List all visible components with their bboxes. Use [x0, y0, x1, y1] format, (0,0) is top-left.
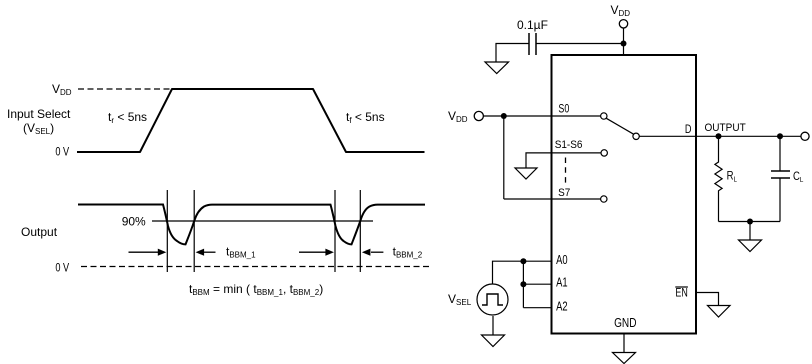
- svg-text:0 V: 0 V: [55, 146, 69, 158]
- capacitor C1 0.1uF: [517, 18, 548, 55]
- svg-text:S7: S7: [558, 187, 570, 199]
- wire VSEL to A0: [493, 261, 552, 284]
- wire A0 junction down to A2: [522, 261, 524, 308]
- svg-text:tr < 5ns: tr < 5ns: [108, 110, 147, 125]
- wire VSEL to ground: [492, 316, 494, 335]
- svg-text:EN: EN: [675, 286, 687, 300]
- pin S7 contact: [601, 196, 607, 202]
- svg-text:S0: S0: [558, 103, 569, 116]
- ground (load): [739, 240, 762, 252]
- arrow tBBM_1 right: [196, 249, 216, 256]
- wire S7: [504, 198, 601, 200]
- arrow tBBM_2 left: [299, 249, 334, 256]
- wire junction to capacitor: [536, 43, 624, 45]
- wire vertical marker line 4: [359, 190, 361, 272]
- wire to load ground: [749, 222, 751, 241]
- node junction RL top: [716, 133, 722, 139]
- source VSEL pulse generator: [477, 284, 508, 315]
- switch pole contact: [633, 133, 639, 139]
- ground (VSEL): [482, 335, 505, 347]
- pin EN label with overline: [675, 286, 688, 300]
- wire VDD dashed reference line: [78, 88, 171, 90]
- ground (bypass cap): [485, 62, 509, 74]
- wire EN to ground: [697, 293, 719, 306]
- wire output waveform: [78, 205, 425, 245]
- node VDD left terminal: [474, 111, 483, 120]
- ground (EN): [708, 306, 731, 318]
- svg-text:D: D: [685, 124, 692, 136]
- pin S0 contact: [601, 113, 607, 119]
- node junction load ground: [747, 219, 753, 225]
- ground (S1-S6): [515, 168, 537, 179]
- wire VDD terminal to junction: [623, 28, 625, 44]
- svg-text:90%: 90%: [122, 214, 146, 228]
- arrow tBBM_2 right: [362, 249, 384, 256]
- wire vertical marker line 1: [166, 190, 168, 272]
- svg-text:0 V: 0 V: [55, 262, 69, 274]
- wire junction to chip top: [623, 44, 625, 56]
- switch arm S0 to D: [606, 118, 633, 134]
- wire 90% reference line: [152, 220, 373, 222]
- svg-text:Input Select: Input Select: [7, 107, 71, 121]
- wire A2: [523, 307, 551, 309]
- node VDD level label (timing): [52, 82, 72, 97]
- svg-text:GND: GND: [614, 316, 636, 330]
- capacitor CL: [771, 136, 803, 221]
- node output terminal: [801, 132, 809, 140]
- wire VDD to S0: [483, 115, 600, 117]
- pin S1-S6 contact: [601, 150, 607, 156]
- svg-text:0.1µF: 0.1µF: [517, 18, 548, 32]
- wire GND pin: [623, 334, 625, 353]
- ground (GND pin): [613, 353, 636, 364]
- wire A1: [523, 283, 551, 285]
- wire junction down to S7: [503, 116, 505, 199]
- svg-text:A0: A0: [556, 253, 568, 267]
- wire dashed S1-S6 to S7: [565, 158, 567, 185]
- node junction A0: [520, 258, 526, 264]
- node junction VDD: [621, 41, 627, 47]
- wire 0V dashed line (output): [81, 266, 430, 268]
- node junction S0/S7: [501, 113, 507, 119]
- svg-text:OUTPUT: OUTPUT: [705, 122, 746, 134]
- wire D to output terminal: [639, 135, 801, 137]
- node Input Select label: [7, 107, 71, 136]
- svg-text:S1-S6: S1-S6: [555, 139, 583, 151]
- wire S1-S6 to ground: [526, 153, 601, 168]
- svg-text:A1: A1: [556, 276, 568, 290]
- node junction A1: [520, 281, 526, 287]
- wire capacitor to ground: [496, 44, 529, 63]
- arrow tBBM_1 left: [129, 249, 167, 256]
- svg-text:Output: Output: [21, 225, 58, 239]
- svg-text:A2: A2: [556, 299, 568, 313]
- svg-text:tf < 5ns: tf < 5ns: [346, 110, 385, 125]
- wire RL/CL bottom: [719, 221, 781, 223]
- node junction CL top: [777, 133, 783, 139]
- resistor RL: [715, 136, 737, 221]
- op-amp U1 multiplexer body: [552, 55, 697, 334]
- wire vertical marker line 3: [334, 190, 336, 272]
- wire vertical marker line 2: [193, 190, 195, 272]
- wire input select waveform: [77, 89, 425, 152]
- node VDD top terminal: [619, 20, 627, 28]
